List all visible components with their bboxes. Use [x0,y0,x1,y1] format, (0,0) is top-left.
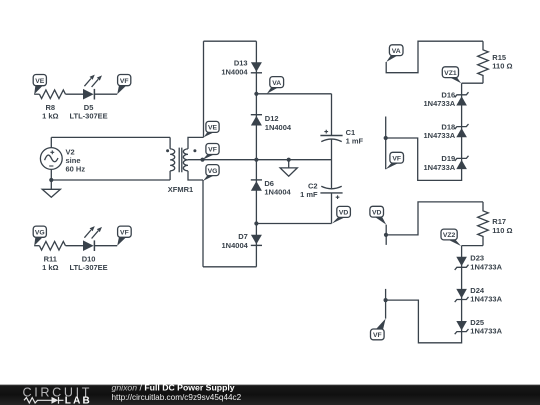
diode D7 [251,235,262,244]
svg-text:XFMR1: XFMR1 [168,185,193,194]
logo squiggle diode [52,397,59,404]
svg-text:1 kΩ: 1 kΩ [42,263,58,272]
svg-text:110 Ω: 110 Ω [492,226,512,235]
node flag VF (xfmr) [203,144,220,160]
svg-text:D12: D12 [265,114,279,123]
phase dot primary [166,149,169,152]
LED D5 emission arrows [84,75,102,87]
wire D5 to VF flag [94,93,117,95]
svg-text:1N4733A: 1N4733A [470,327,502,336]
wire bottom rail [203,266,256,268]
wire R11 to D10 [66,245,84,247]
svg-text:1N4004: 1N4004 [221,67,248,76]
svg-text:1 kΩ: 1 kΩ [42,111,58,120]
svg-text:VG: VG [35,229,45,236]
secondary coil [183,149,188,171]
svg-text:1 mF: 1 mF [346,137,364,146]
svg-text:VD: VD [372,209,382,216]
voltage source V2 [40,148,62,170]
bridge rails and wires [203,41,332,267]
svg-text:VD: VD [339,210,349,217]
svg-text:LTL-307EE: LTL-307EE [69,111,107,120]
wire VA to caps [256,93,331,95]
logo squiggle resistor [24,398,52,403]
svg-text:VF: VF [373,332,382,339]
wire VE flag to R8 [34,93,39,95]
junction dot VD [254,221,258,225]
node flag VE (top-left) [33,75,46,95]
svg-text:VA: VA [392,48,401,55]
zener D16 [423,91,468,109]
wire R8 to D5 [66,93,84,95]
svg-text:VF: VF [120,229,129,236]
resistor R17 [478,202,489,246]
LED D5 [83,89,94,100]
diode D6 [251,179,262,181]
wire right rail [255,41,257,267]
svg-text:VE: VE [208,125,218,132]
primary leads [169,137,171,180]
right bottom: VD stub and wire to R17 [386,202,483,245]
svg-text:1 mF: 1 mF [300,190,318,199]
node flag VF (right bottom) [371,319,386,340]
svg-text:1N4733A: 1N4733A [470,262,502,271]
svg-text:VF: VF [120,78,129,85]
ground at V2 [42,180,60,197]
junction dot V2 bottom [49,178,53,182]
svg-text:1N4004: 1N4004 [264,187,291,196]
capacitor C1 [320,136,342,142]
diode D12 [251,114,262,116]
svg-text:D23: D23 [470,254,484,263]
wire center tap VF to caps [188,159,332,161]
svg-text:LTL-307EE: LTL-307EE [69,263,107,272]
node flag VZ2 [441,229,461,246]
junction dot center tap [200,158,204,162]
wire R17 to zener chain [386,246,483,343]
wire VG flag to R11 [34,245,39,247]
right top: wire VA to R15 [386,41,483,72]
svg-text:D25: D25 [470,318,484,327]
node flag VF (bottom-left) [117,226,131,246]
resistor R8 [39,90,65,99]
footer bar [0,385,540,405]
junction dot VA [254,92,258,96]
svg-text:110 Ω: 110 Ω [492,61,512,70]
node flag VG (bottom-left) [33,226,46,246]
LED D10 emission arrows [84,226,102,238]
wire VG down [202,180,204,267]
zener D18 [423,122,468,140]
svg-text:gnixon / Full DC Power Supply: gnixon / Full DC Power Supply [112,383,235,393]
wire VD to caps [256,223,331,225]
zener D24 [455,286,503,304]
node flag VE (xfmr) [204,121,219,137]
node flag VF (right top) [386,152,404,169]
svg-text:60 Hz: 60 Hz [66,165,86,174]
transformer XFMR1 [170,137,203,180]
zener D25 [455,318,503,336]
secondary bottom lead [188,171,203,180]
wire top rail [204,40,257,42]
svg-text:http://circuitlab.com/c9z9sv45: http://circuitlab.com/c9z9sv45q44c2 [112,393,242,402]
wire V2 loop top [51,136,170,138]
caps branch wire [331,94,333,224]
svg-text:VZ2: VZ2 [443,232,456,239]
svg-text:VE: VE [35,78,45,85]
zener D19 [423,154,468,172]
node flag VA (bridge) [267,77,284,94]
ground (center) [280,160,297,177]
junction dot center [254,158,258,162]
wire D10 to VF flag [94,245,117,247]
wire stub VF (right bottom) [385,289,387,319]
svg-text:D24: D24 [470,286,485,295]
wire V2 loop bottom [51,179,170,181]
svg-text:VG: VG [208,168,218,175]
svg-text:1N4733A: 1N4733A [470,295,502,304]
core [179,148,182,173]
svg-text:VZ1: VZ1 [444,70,457,77]
zener D23 [455,254,503,272]
junction dot ground stub [287,158,291,162]
node flag VD (caps) [332,206,351,223]
diode D13 [251,62,262,71]
svg-text:1N4733A: 1N4733A [423,99,455,108]
svg-text:D13: D13 [234,59,248,68]
wire stub VF (right top) [385,117,387,170]
svg-text:LAB: LAB [65,395,92,405]
svg-text:1N4733A: 1N4733A [423,131,455,140]
svg-text:1N4004: 1N4004 [222,241,249,250]
node flag VD (right) [370,206,386,224]
capacitor C2 [320,186,342,193]
resistor R15 [478,41,489,83]
svg-text:1N4004: 1N4004 [265,123,292,132]
secondary top lead [188,137,204,149]
LED D10 [83,240,94,251]
svg-text:VF: VF [392,155,401,162]
svg-text:VA: VA [272,80,281,87]
wire V2 leads [50,137,52,180]
node flag VF (top-left) [117,75,131,95]
node flag VA (right) [386,45,403,62]
node flag VG (xfmr) [203,165,219,181]
primary coil [170,149,175,171]
svg-text:D7: D7 [238,232,248,241]
resistor R11 [39,241,65,250]
wire left rail up [203,41,205,137]
node flag VZ1 [442,67,461,84]
svg-text:1N4733A: 1N4733A [423,163,455,172]
svg-text:VF: VF [208,147,217,154]
phase dot secondary [193,149,196,152]
wire R15 to zener chain [386,83,483,180]
